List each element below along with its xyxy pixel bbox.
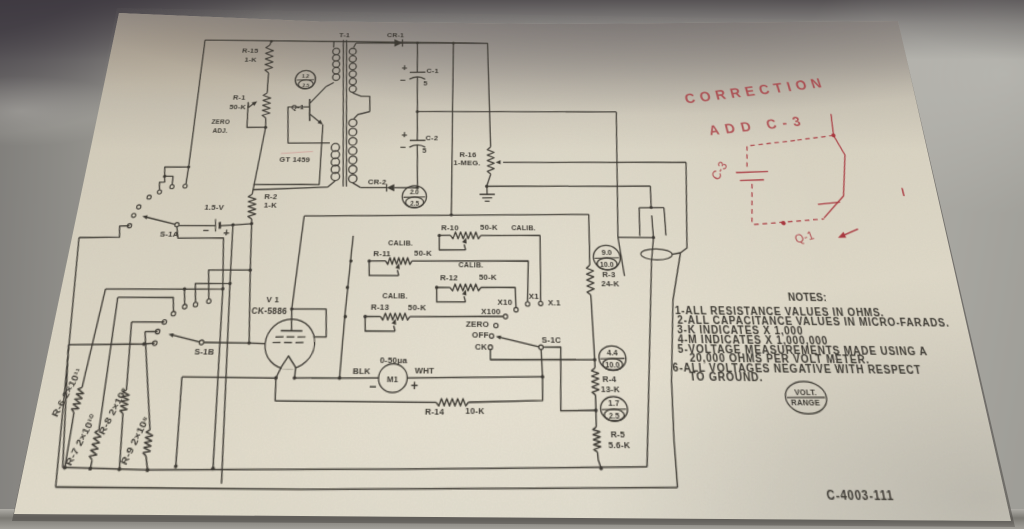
diode CR1: [394, 39, 402, 47]
wire tube pin left: [274, 367, 281, 401]
transistor Q1: [308, 99, 312, 121]
wire: B+ rail to plate and R3: [304, 211, 589, 220]
arm S-1B: [170, 335, 201, 342]
resistor R6: [105, 288, 184, 290]
connector J1 input jack: [639, 206, 664, 209]
red capacitor C3: [736, 171, 768, 173]
arm S-1C: [498, 337, 539, 347]
red wire curve: [810, 135, 856, 218]
diode CR2: [387, 184, 395, 191]
wire S1B L1 left: [132, 321, 165, 324]
junction R16 bottom / ground: [485, 185, 488, 188]
ground: [486, 186, 488, 194]
wire S1B c4 to R2: [205, 270, 251, 300]
wire: top supply rail: [205, 39, 487, 45]
junction meter+/R14/S1C: [541, 375, 545, 379]
resistor R4: [594, 360, 597, 368]
wire tube pin right: [294, 367, 295, 377]
wire R16 wiper to jack shell: [503, 160, 686, 165]
wire Q1 base to feedback winding: [284, 107, 333, 144]
pivot S-1C: [539, 345, 543, 350]
winding secondary upper: [349, 48, 356, 54]
winding secondary lower: [349, 119, 357, 127]
contact X.1: [539, 301, 543, 305]
potentiometer R1: [261, 93, 273, 118]
contact X100: [503, 314, 507, 319]
wire secondary bottom to CR2: [353, 183, 361, 188]
resistor R15: [263, 45, 275, 73]
junction plate/grid bracket: [290, 307, 294, 311]
wire S1B c3 to battery+: [193, 225, 237, 303]
node R3/R4 with CK: [593, 358, 597, 362]
cathode V: [281, 356, 297, 368]
potentiometer R11: [369, 260, 385, 262]
wire Q1 emitter: [254, 124, 325, 186]
wire S1B c1 left: [115, 297, 175, 312]
wire plate lead: [290, 216, 304, 331]
jack shell link: [672, 253, 681, 255]
wire secondary center tap: [352, 93, 371, 112]
junction feed/R12: [346, 286, 350, 290]
junction jack bar: [649, 206, 653, 209]
wire far-left measure loop: [29, 238, 102, 488]
junction R2 bottom / battery+: [250, 222, 254, 225]
contact X10: [514, 308, 518, 312]
potentiometer R13: [365, 315, 380, 317]
potentiometer R16: [488, 43, 491, 147]
transformer T1 core: [332, 40, 354, 187]
wire: bottom line 1: [62, 462, 647, 474]
wire battery+ down to bottom line 2: [205, 283, 244, 483]
capacitor C1: [416, 43, 418, 72]
contact OFF: [489, 334, 493, 339]
resistor R3: [587, 214, 591, 265]
voltage reading 4.4/10.0: [598, 346, 626, 371]
wire S1A to measure loop: [79, 225, 129, 238]
red arrow: [840, 229, 860, 237]
jack left prong: [638, 208, 642, 236]
junction grid line: [247, 341, 251, 345]
meter M1: [182, 377, 276, 378]
wire meter line to bottom: [170, 377, 188, 466]
red dashed wiring: [794, 135, 834, 141]
junction supply / B+ wire: [450, 213, 453, 216]
junction feed/R11: [349, 259, 353, 262]
junction feed/R13: [343, 315, 347, 319]
contact ZERO: [494, 323, 498, 328]
resistor R14: [275, 401, 436, 403]
wire: left outline vertical: [186, 40, 208, 167]
contact X1: [525, 302, 529, 306]
junction R1 bottom: [264, 126, 268, 129]
wire S1A pivot to S1B: [165, 227, 230, 305]
junction R5 / bottom line: [599, 466, 603, 470]
winding feedback lower-left: [331, 143, 340, 151]
resistor R7: [95, 297, 122, 430]
resistor R2: [246, 194, 258, 219]
wire R2 bottom to grid: [238, 224, 262, 343]
red wire solid: [830, 114, 835, 135]
wire grid bracket: [289, 309, 328, 337]
switch S-1A: [157, 190, 162, 194]
junction feed/meter line: [338, 376, 342, 380]
red stray mark: [902, 188, 904, 196]
switch S-1B: [171, 311, 176, 316]
battery 1.5V: [214, 219, 217, 231]
potentiometer R10: [439, 234, 450, 236]
junction top rail / R15: [270, 40, 273, 43]
jack right prong: [664, 208, 667, 236]
wire jack shell feedback: [650, 162, 719, 488]
pivot S-1B: [199, 340, 204, 345]
wire feedback bottom: [328, 181, 335, 187]
wire to primary top: [332, 42, 335, 48]
wire common down: [45, 345, 86, 468]
wire: bottom line 2: [56, 483, 678, 492]
capacitor C2: [416, 112, 418, 141]
wire: divider feed vertical: [340, 236, 354, 378]
wire to contact: [186, 167, 189, 184]
wire: R1 bottom to R2 top: [252, 127, 265, 194]
contact CK: [488, 345, 492, 350]
potentiometer R12: [437, 286, 450, 288]
volt range circle: [783, 381, 829, 414]
wiper link R1: [245, 102, 268, 127]
resistor R5: [595, 410, 596, 427]
junction C1/C2 center tap: [416, 110, 419, 113]
jack center pin down to bottom line: [629, 215, 672, 467]
junction rail / C1: [416, 41, 419, 44]
voltage reading 1.2/2.5: [294, 70, 316, 89]
wire grid from S-1B: [204, 342, 266, 343]
resistor R9: [129, 332, 164, 430]
arm S-1A: [143, 217, 176, 225]
node R4/R5: [594, 408, 598, 412]
wire ground to jack bar: [487, 184, 651, 189]
wire: top rail right segment: [356, 41, 488, 45]
resistor R8: [120, 322, 137, 390]
junction jack pin: [652, 236, 656, 239]
junction C2 bottom / CR2 line: [416, 186, 419, 189]
wire: secondary center-tap to jack: [417, 109, 616, 115]
wire stem down to bottom line 1: [200, 289, 234, 469]
pivot S-1A: [175, 223, 180, 227]
wire S1B common left: [68, 342, 154, 345]
red tick: [818, 202, 841, 205]
wire secondary top: [354, 43, 356, 47]
voltage reading 2.0/2.5: [402, 186, 427, 208]
wire stub: [618, 237, 625, 276]
winding primary upper: [332, 48, 339, 54]
wire S1C pivot to R4 bottom: [543, 347, 596, 411]
junction rail / supply: [452, 42, 455, 45]
voltage reading 1.7/2.5: [600, 396, 628, 421]
wire S1B L2 left: [145, 330, 158, 332]
wire CK to R4 top: [490, 349, 594, 360]
wire: rectified supply down: [450, 43, 454, 215]
grid dashes: [275, 336, 283, 338]
junction left edge: [187, 165, 191, 168]
voltage reading 9.0/10.0: [593, 245, 621, 270]
wire S1C pivot down: [541, 349, 543, 376]
tube V1 CK-5886: [263, 319, 317, 369]
